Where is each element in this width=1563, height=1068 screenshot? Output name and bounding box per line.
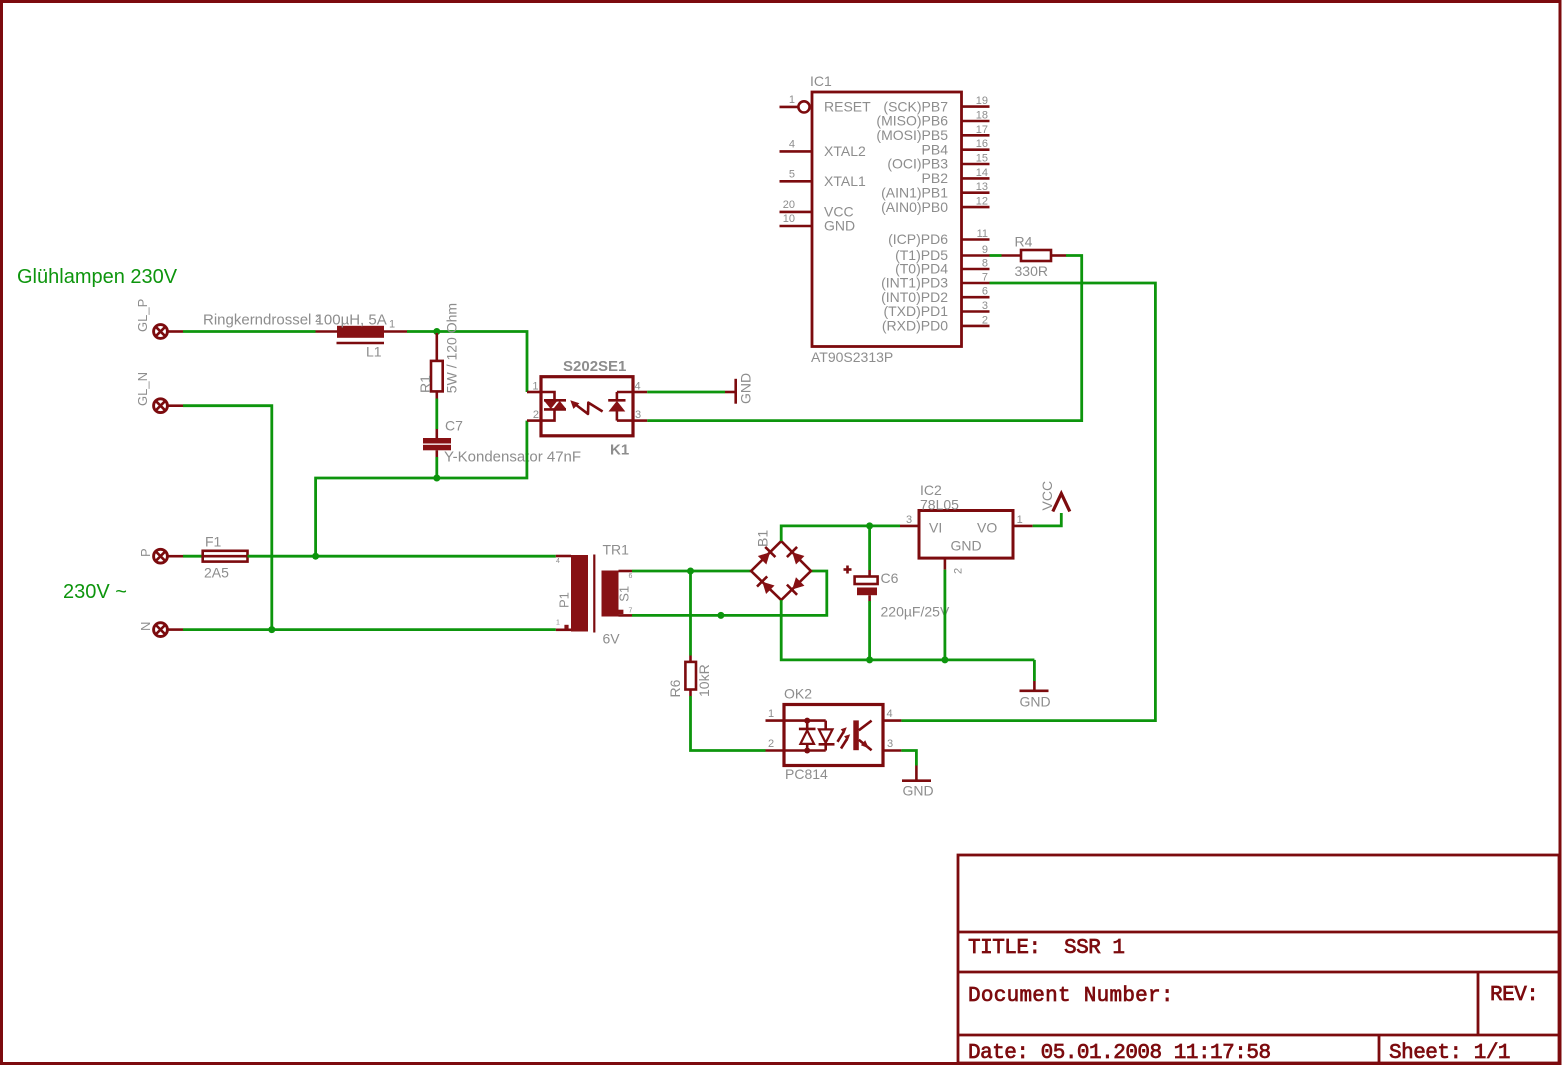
transformer TR1 secondary stub pin7 <box>619 614 633 617</box>
svg-text:6V: 6V <box>603 631 621 647</box>
svg-text:1: 1 <box>1017 514 1023 526</box>
svg-text:R1: R1 <box>417 375 433 393</box>
svg-text:GL_P: GL_P <box>135 299 150 332</box>
wire GL_P to L1 <box>183 330 316 333</box>
pin 12 PB0 stub <box>962 206 990 209</box>
OK2 pin 1 lead <box>766 719 785 722</box>
IC U1 box AT90S2313P <box>812 92 962 347</box>
svg-text:Glühlampen 230V: Glühlampen 230V <box>17 266 178 288</box>
svg-text:17: 17 <box>976 124 988 136</box>
pin 13 PB1 stub <box>962 191 990 194</box>
pin 1 RESET wire with inversion bubble <box>780 106 799 109</box>
wire C7 down <box>435 457 438 478</box>
title block divider line 2 <box>958 971 1559 974</box>
svg-text:4: 4 <box>635 381 641 393</box>
OK2 pin 3 lead <box>883 749 901 752</box>
capacitor C7 <box>435 429 438 438</box>
svg-text:220µF/25V: 220µF/25V <box>881 604 950 620</box>
svg-text:2: 2 <box>768 738 774 750</box>
svg-text:1: 1 <box>532 381 538 393</box>
wire bridge top to IC2 VI <box>781 526 900 541</box>
transformer TR1 primary stub top <box>556 555 571 558</box>
svg-text:78L05: 78L05 <box>920 497 959 513</box>
svg-text:S202SE1: S202SE1 <box>563 358 626 375</box>
ground symbol GND below OK2 <box>915 766 918 780</box>
wire R6 to OK2 pin2 <box>691 696 766 751</box>
svg-text:(RXD)PD0: (RXD)PD0 <box>882 318 948 334</box>
title block outline <box>958 855 1559 1063</box>
pin 14 PB2 stub <box>962 177 990 180</box>
svg-text:10kR: 10kR <box>696 664 712 697</box>
junction R6 branch <box>687 568 694 575</box>
B1 diode bottom-left <box>757 576 775 594</box>
OK2 internal diode A <box>806 721 809 729</box>
svg-text:1: 1 <box>789 94 795 106</box>
svg-text:7: 7 <box>982 272 988 284</box>
svg-text:GND: GND <box>824 218 855 234</box>
pin 5 XTAL1 wire <box>780 180 812 183</box>
bridge rectifier B1 diamond <box>751 541 811 600</box>
transformer TR1 primary winding P1 <box>571 555 588 632</box>
K1 internal triac <box>541 392 555 400</box>
transformer TR1 primary stub bottom <box>556 628 571 631</box>
title block divider line 3 <box>958 1034 1559 1037</box>
svg-text:16: 16 <box>976 138 988 150</box>
svg-text:B1: B1 <box>755 530 771 547</box>
K1 pin 1 lead <box>527 391 541 394</box>
terminal P <box>154 549 168 563</box>
junction at R1 top <box>433 328 440 335</box>
wire S1 pin6 to bridge left <box>632 570 751 573</box>
pin 10 GND wire <box>780 225 812 228</box>
wire from R4 to K1 pin3 net <box>647 256 1081 421</box>
pin 15 PB3 stub <box>962 163 990 166</box>
svg-text:C7: C7 <box>445 418 463 434</box>
svg-text:15: 15 <box>976 153 988 165</box>
svg-text:14: 14 <box>976 167 988 179</box>
K1 pin 3 lead <box>633 419 647 422</box>
terminal N <box>154 623 168 637</box>
optocoupler OK2 box <box>784 705 883 766</box>
svg-text:6: 6 <box>982 286 988 298</box>
wire fuse to transformer P1 top <box>248 555 556 558</box>
junction OK2 pin1 branch <box>717 612 724 619</box>
svg-text:OK2: OK2 <box>784 686 812 702</box>
svg-text:Ringkerndrossel 100µH, 5A: Ringkerndrossel 100µH, 5A <box>203 312 387 329</box>
svg-text:2: 2 <box>533 409 539 421</box>
VCC power symbol arrow <box>1053 494 1070 512</box>
svg-text:12: 12 <box>976 196 988 208</box>
svg-text:3: 3 <box>887 738 893 750</box>
OK2 pin 2 lead <box>766 749 785 752</box>
resistor R6 branch wire from S1 pin6 net <box>689 571 692 656</box>
TR1 pad marks <box>564 625 568 629</box>
svg-text:L1: L1 <box>366 344 382 360</box>
svg-text:S1: S1 <box>617 586 632 602</box>
svg-text:F1: F1 <box>205 534 222 550</box>
junction at C7 bottom <box>433 475 440 482</box>
IC2 pin 2 stem <box>944 558 947 570</box>
svg-text:13: 13 <box>976 181 988 193</box>
svg-text:20: 20 <box>783 199 795 211</box>
B1 diode top-left <box>757 547 775 565</box>
junction C6 bottom <box>866 656 873 663</box>
svg-text:4: 4 <box>556 558 560 565</box>
wire P to fuse <box>183 555 203 558</box>
svg-text:Document Number:: Document Number: <box>968 985 1173 1008</box>
svg-text:VCC: VCC <box>1039 481 1055 511</box>
svg-text:P: P <box>138 548 153 557</box>
pin 4 XTAL2 wire <box>780 150 812 153</box>
pin 6 PD2 stub <box>962 296 990 299</box>
svg-text:P1: P1 <box>556 592 571 608</box>
svg-text:GL_N: GL_N <box>135 372 150 406</box>
svg-text:8: 8 <box>982 258 988 270</box>
svg-text:XTAL2: XTAL2 <box>824 143 866 159</box>
wire IC2 pin2 to GND rail <box>944 570 947 660</box>
wire bridge bottom to GND rail <box>781 600 1034 660</box>
OK2 internal diode B <box>824 721 827 730</box>
C6 plus sign <box>844 568 852 571</box>
pin 18 PB6 stub <box>962 120 990 123</box>
OK2 light arrows <box>838 732 844 742</box>
svg-text:5: 5 <box>789 168 795 180</box>
OK2 pin 4 lead <box>883 719 901 722</box>
svg-text:18: 18 <box>976 110 988 122</box>
svg-text:4: 4 <box>789 138 795 150</box>
K1 pin 4 lead <box>633 391 647 394</box>
svg-text:6: 6 <box>629 573 633 580</box>
inductor L1 Ringkerndrossel <box>316 330 338 333</box>
pin 16 PB4 stub <box>962 148 990 151</box>
K1 pin 2 lead <box>527 419 541 422</box>
svg-text:XTAL1: XTAL1 <box>824 173 866 189</box>
svg-text:AT90S2313P: AT90S2313P <box>811 349 893 365</box>
svg-text:R6: R6 <box>667 679 683 697</box>
svg-text:1: 1 <box>389 319 395 331</box>
wire N to transformer P1 bottom <box>183 628 556 631</box>
voltage regulator IC2 box <box>919 511 1013 559</box>
pin 17 PB5 stub <box>962 134 990 137</box>
junction IC2 GND pin <box>941 656 948 663</box>
svg-text:2: 2 <box>982 314 988 326</box>
svg-text:3: 3 <box>635 409 641 421</box>
wire L1 to K1 pin1 <box>407 332 527 393</box>
svg-text:19: 19 <box>976 95 988 107</box>
IC2 pin 1 lead <box>1013 525 1033 528</box>
svg-text:GND: GND <box>903 783 934 799</box>
ground symbol GND at rail end <box>1033 660 1036 681</box>
pin 11 PD6 stub <box>962 238 990 241</box>
svg-text:(AIN0)PB0: (AIN0)PB0 <box>881 199 948 215</box>
wire K1 pin4 to GND <box>647 391 725 394</box>
wire IC2 VO to VCC <box>1033 513 1062 526</box>
K1 internal light arrow <box>570 400 579 409</box>
svg-text:PC814: PC814 <box>785 766 828 782</box>
svg-text:2: 2 <box>315 313 321 325</box>
B1 diode bottom-right <box>787 576 805 594</box>
terminal GL_N <box>154 399 168 413</box>
junction on N wire <box>268 626 275 633</box>
transformer TR1 core <box>593 555 595 633</box>
ground symbol GND at K1 <box>725 391 736 394</box>
fuse F1 <box>203 551 248 562</box>
svg-text:2A5: 2A5 <box>204 565 229 581</box>
wire R1 to C7 <box>435 399 438 430</box>
pin 7 PD3 stub <box>962 282 990 285</box>
svg-text:3: 3 <box>906 514 912 526</box>
svg-text:VI: VI <box>929 520 942 536</box>
svg-text:3: 3 <box>982 300 988 312</box>
svg-text:IC1: IC1 <box>810 73 832 89</box>
resistor R4 lead left <box>990 254 1002 257</box>
svg-text:(ICP)PD6: (ICP)PD6 <box>888 231 948 247</box>
svg-text:GND: GND <box>738 373 754 404</box>
svg-text:N: N <box>138 622 153 631</box>
wire OK2 pin3 to GND <box>901 751 916 766</box>
wire S1 pin7 to bridge right <box>632 571 827 615</box>
svg-text:4: 4 <box>887 708 893 720</box>
transformer TR1 secondary stub pin6 <box>619 570 633 573</box>
wire horizontal mains branch <box>316 421 527 557</box>
svg-text:GND: GND <box>1020 694 1051 710</box>
svg-text:VO: VO <box>977 520 997 536</box>
pin 9 PD5 stub <box>962 254 990 257</box>
resistor R6 <box>689 656 692 662</box>
svg-text:Y-Kondensator 47nF: Y-Kondensator 47nF <box>444 449 581 466</box>
terminal GL_P <box>154 325 168 339</box>
resistor R4 body <box>1021 250 1051 261</box>
pin 19 PB7 stub <box>962 105 990 108</box>
svg-text:330R: 330R <box>1015 263 1048 279</box>
wire GL_N down to N <box>183 406 272 630</box>
IC2 pin 3 lead <box>900 525 919 528</box>
title block Sheet column divider <box>1378 1035 1381 1063</box>
OK2 phototransistor <box>853 720 859 750</box>
svg-text:GND: GND <box>951 538 982 554</box>
pin 3 PD1 stub <box>962 310 990 313</box>
OK2 internal input rails <box>784 719 826 722</box>
wire from IC1 pin7 PD3 to OK2 pin4 net <box>901 283 1155 721</box>
title block REV column divider <box>1477 972 1480 1035</box>
pin 2 PD0 stub <box>962 325 990 328</box>
svg-text:230V ~: 230V ~ <box>63 581 127 603</box>
B1 diode top-right <box>787 547 805 565</box>
title block divider line 1 <box>958 931 1559 934</box>
svg-text:1: 1 <box>556 620 560 627</box>
solid state relay K1 box <box>541 377 633 436</box>
svg-text:Sheet: 1/1: Sheet: 1/1 <box>1389 1042 1510 1065</box>
svg-text:2: 2 <box>953 568 965 574</box>
svg-text:11: 11 <box>977 228 988 240</box>
resistor R1 <box>435 333 438 361</box>
svg-text:SSR 1: SSR 1 <box>1064 937 1125 960</box>
svg-text:7: 7 <box>629 608 633 615</box>
capacitor C6 <box>868 526 871 570</box>
transformer TR1 secondary winding S1 <box>602 571 619 617</box>
junction on P wire <box>312 553 319 560</box>
svg-text:R4: R4 <box>1015 234 1033 250</box>
svg-text:TITLE:: TITLE: <box>968 937 1041 960</box>
svg-text:5W / 120 Ohm: 5W / 120 Ohm <box>444 303 460 393</box>
resistor R4 lead right <box>1051 254 1066 257</box>
svg-text:10: 10 <box>783 213 795 225</box>
svg-text:TR1: TR1 <box>603 542 630 558</box>
svg-text:9: 9 <box>982 244 988 256</box>
svg-text:C6: C6 <box>881 570 899 586</box>
K1 internal input LED <box>616 392 619 400</box>
svg-text:K1: K1 <box>610 442 629 459</box>
junction C6 top <box>866 522 873 529</box>
svg-text:RESET: RESET <box>824 99 871 115</box>
pin 20 VCC wire <box>780 211 812 214</box>
svg-text:Date: 05.01.2008 11:17:58: Date: 05.01.2008 11:17:58 <box>968 1042 1271 1065</box>
svg-text:1: 1 <box>768 708 774 720</box>
svg-text:REV:: REV: <box>1490 984 1538 1007</box>
pin 8 PD4 stub <box>962 268 990 271</box>
